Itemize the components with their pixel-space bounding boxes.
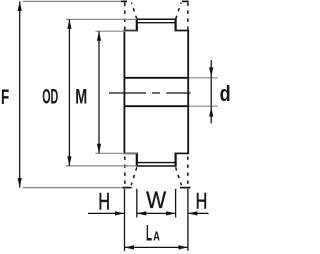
arrow F bottom [18,178,22,188]
extension line W left vertical [136,189,138,218]
center axis dash-dot line [109,92,191,94]
extension line M bottom [96,152,138,154]
arrow H right (pointing left) [188,211,198,215]
bore bottom line [124,105,188,107]
extension line M top [96,30,138,32]
band surface top inner line [138,22,175,24]
boss bottom edge left [124,152,138,154]
arrow M top [97,31,101,41]
svg-text:M: M [75,84,87,108]
boss top edge right [175,30,190,32]
dimension line H right [188,212,209,214]
dimension line LA [125,246,188,248]
svg-text:d: d [220,81,231,106]
flange inner face bottom right (dashed slant) [176,167,182,185]
arrow LA left (pointing left) [125,245,135,249]
band lip top left [136,19,138,31]
svg-text:L: L [146,220,152,245]
svg-text:H: H [98,189,110,216]
flange tip bottom right [180,187,191,189]
arrow W left (pointing left) [137,211,147,215]
arrow OD top [67,19,71,29]
band lip top right [175,19,177,31]
extension line LA/H left vertical [124,189,126,251]
svg-text:F: F [1,85,9,109]
extension line OD top [66,18,137,20]
flange tip bottom left [123,187,132,189]
dimension line OD [68,19,70,166]
dimension line H left [88,212,125,214]
arrow H left (pointing right) [115,211,125,215]
extension line d bottom [189,105,218,107]
bore top line [124,77,188,79]
dimension line W [137,212,176,214]
flange outer face top right (dashed) [187,3,189,30]
flange outer face bottom left (dashed) [124,157,126,187]
pulley barrel right face [187,31,189,154]
extension line F top [23,0,121,2]
extension line OD bottom [66,165,137,167]
arrow W right (pointing right) [166,211,176,215]
dimension line M [98,31,100,153]
dimension line F [19,1,21,187]
band surface bottom outer line [136,165,177,167]
arrow d bottom (pointing up) [209,107,213,117]
boss bottom edge right [175,152,190,154]
flange tip top right [182,0,189,2]
band surface top outer line [136,18,177,20]
flange inner face top left (dashed slant) [132,3,137,20]
arrow OD bottom [67,156,71,166]
dimension line d [210,60,212,124]
extension line F bottom [23,187,123,189]
arrow F top [18,1,22,11]
arrow LA right (pointing right) [178,245,188,249]
flange tip top left [121,0,127,2]
svg-text:A: A [153,228,160,243]
band surface bottom inner line [138,162,175,164]
flange outer face bottom right (dashed) [187,157,189,187]
svg-text:OD: OD [42,84,58,108]
flange inner face top right (dashed slant) [176,3,182,20]
svg-text:W: W [146,187,166,214]
flange inner face bottom left (dashed slant) [131,167,137,185]
pulley barrel left face [123,31,125,154]
band lip bottom left [136,153,138,166]
boss top edge left [124,30,138,32]
arrow M bottom [97,144,101,154]
extension line W right vertical [175,189,177,218]
arrow d top (pointing down) [209,67,213,77]
extension line LA/H right vertical [187,189,189,251]
extension line d top [189,77,218,79]
band lip bottom right [175,153,177,166]
svg-text:H: H [196,188,208,213]
flange outer face top left (dashed) [124,3,126,30]
